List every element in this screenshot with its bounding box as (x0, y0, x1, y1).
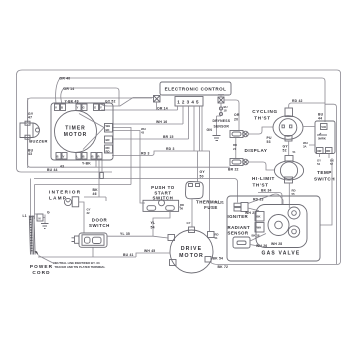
svg-text:WH 28: WH 28 (271, 242, 282, 246)
dryness sensor terminal (218, 97, 224, 103)
wire GY 50 (197, 151, 199, 182)
wire BU 41 bottom (38, 256, 136, 258)
svg-text:47: 47 (28, 116, 32, 120)
door switch body (79, 233, 107, 247)
svg-text:52: 52 (283, 149, 287, 153)
display connector 2 (230, 159, 243, 166)
svg-text:POWER: POWER (30, 264, 53, 269)
display conn1-conn2 link wire (235, 138, 237, 159)
svg-text:46: 46 (93, 192, 97, 196)
svg-text:DRIVE: DRIVE (181, 246, 202, 252)
svg-text:IGNITER: IGNITER (228, 214, 249, 219)
svg-text:OR 14: OR 14 (157, 106, 168, 110)
svg-text:RD 3: RD 3 (141, 152, 150, 156)
lamp tail wire (79, 202, 84, 233)
svg-text:20: 20 (234, 118, 238, 122)
svg-text:L: L (77, 155, 79, 159)
svg-text:G: G (94, 106, 96, 110)
svg-text:G: G (83, 106, 85, 110)
wire door switch drop (92, 247, 94, 257)
svg-text:RADIANT: RADIANT (228, 225, 251, 230)
door switch left plug (75, 236, 80, 243)
svg-text:TEMP: TEMP (317, 170, 332, 175)
svg-text:SWITCH: SWITCH (89, 223, 110, 228)
svg-text:DRYNESS: DRYNESS (213, 119, 231, 123)
svg-text:DOOR: DOOR (92, 218, 108, 223)
radiant sensor wires (250, 234, 266, 247)
timer terminal top-mid (76, 104, 87, 111)
svg-text:18: 18 (224, 109, 228, 113)
wire GY 52 diagonal to control pin (102, 98, 154, 107)
svg-text:CORD: CORD (32, 270, 50, 275)
wire hi-limit to gas valve RD 55 (288, 183, 290, 208)
buzzer inner circle (36, 128, 40, 132)
svg-text:TH'ST: TH'ST (254, 116, 271, 121)
timer terminal bottom-1 (56, 153, 67, 160)
svg-text:BK 72: BK 72 (218, 265, 229, 269)
svg-text:43: 43 (60, 165, 64, 169)
wire WH 16 bus (112, 123, 183, 125)
wire WH 3A (303, 127, 316, 146)
wire right return (325, 104, 337, 264)
svg-text:TRACER AND TIN PLATED TERMINAL: TRACER AND TIN PLATED TERMINAL (55, 265, 106, 269)
svg-text:LAMP: LAMP (49, 196, 67, 201)
svg-text:51: 51 (215, 236, 219, 240)
dryness sensor ground (213, 136, 221, 141)
svg-text:WH 16: WH 16 (156, 120, 167, 124)
outer cabinet border (22, 70, 341, 265)
svg-text:OR 14: OR 14 (64, 87, 75, 91)
svg-text:BU 41: BU 41 (123, 253, 134, 257)
svg-text:V: V (55, 106, 57, 110)
svg-text:Y-BK 49: Y-BK 49 (65, 99, 79, 103)
svg-text:RD: RD (106, 150, 110, 154)
wire BR 15 bus (112, 138, 189, 140)
timer cam wedge (79, 114, 104, 150)
wire OR 40 top bus (56, 78, 325, 122)
motor terminal left-top (168, 235, 175, 241)
svg-text:GY: GY (187, 221, 191, 225)
wire cycling to hi-limit GY 52 (288, 141, 290, 156)
wire RD 42 (289, 103, 325, 108)
svg-text:BR 22: BR 22 (228, 168, 239, 172)
motor terminal bottom-right (205, 257, 211, 263)
svg-text:RD: RD (326, 149, 330, 153)
timer terminal right-1 (105, 124, 113, 133)
motor terminal top (189, 227, 195, 233)
radiant sensor body (233, 237, 250, 248)
svg-text:BR 15: BR 15 (163, 135, 174, 139)
wire L1 power cord leg (30, 179, 32, 220)
svg-text:CYCLING: CYCLING (252, 109, 278, 114)
timer terminal bottom-3 (91, 153, 102, 160)
svg-text:N: N (39, 217, 41, 221)
wire BK 54 to bottom bus (210, 262, 218, 265)
wire OR 20 (224, 100, 239, 131)
svg-text:MOTOR: MOTOR (64, 132, 88, 138)
wire display2 to hi-limit (248, 162, 274, 170)
display connector 1 (230, 131, 243, 138)
buzzer body (20, 123, 39, 138)
svg-text:WH: WH (257, 226, 262, 230)
svg-text:54: 54 (317, 162, 321, 166)
gas valve mount hole bottom (288, 226, 299, 237)
svg-text:B: B (83, 155, 85, 159)
svg-text:43: 43 (141, 131, 145, 135)
thermal fuse blob (186, 182, 204, 199)
temp switch contacts (317, 133, 327, 135)
svg-text:YL 35: YL 35 (120, 232, 130, 236)
temp switch bottom terminals (317, 148, 333, 154)
svg-text:BK 34: BK 34 (261, 189, 272, 193)
svg-text:53: 53 (267, 140, 271, 144)
control board pin terminal (154, 96, 161, 103)
svg-text:V: V (63, 155, 65, 159)
interior lamp bulb (64, 198, 71, 205)
svg-text:B: B (61, 106, 63, 110)
power cord cable (29, 216, 35, 255)
dryness sensor stem (217, 103, 222, 135)
svg-text:YL: YL (151, 221, 156, 225)
outer border left edge (17, 70, 113, 172)
svg-text:RD 3: RD 3 (166, 147, 175, 151)
svg-text:R: R (98, 155, 100, 159)
svg-text:INTERIOR: INTERIOR (49, 190, 81, 195)
wire OR 14 bus (101, 109, 178, 111)
timer terminal top-right (94, 104, 105, 111)
svg-text:G: G (47, 211, 50, 215)
wire push-start right leg (153, 207, 181, 236)
electronic control box (160, 82, 231, 95)
svg-text:3A: 3A (303, 145, 307, 149)
wire OR 14 upper (61, 88, 119, 106)
svg-text:GN: GN (207, 128, 213, 132)
timer terminal right-2 (105, 136, 113, 143)
gas valve center circle (268, 215, 289, 236)
push to start button (159, 200, 165, 206)
svg-text:Y-BK: Y-BK (82, 162, 91, 166)
wire BR 22 (201, 106, 203, 151)
svg-text:BU 44: BU 44 (47, 168, 58, 172)
svg-text:56: 56 (180, 207, 184, 211)
connector pin wires (178, 106, 200, 151)
svg-text:FUSE: FUSE (204, 205, 218, 210)
wire RD 3 bus (112, 151, 210, 232)
control connector 1 2 3 4 5 (175, 97, 203, 107)
svg-text:GY: GY (200, 170, 206, 174)
hi-limit thermostat body (274, 161, 303, 180)
drive motor circle (170, 230, 213, 273)
svg-text:32: 32 (87, 211, 91, 215)
svg-text:BR: BR (106, 138, 110, 142)
timer terminal bottom-2 (76, 153, 87, 160)
svg-text:BUZZER: BUZZER (29, 138, 48, 143)
hi-limit top terminal (285, 156, 293, 162)
gas valve mount hole top (288, 207, 300, 219)
svg-text:RD 42: RD 42 (292, 99, 303, 103)
svg-text:5MRK: 5MRK (318, 137, 326, 141)
ground symbol power (41, 224, 49, 229)
wire display1 to cycling (248, 127, 273, 134)
igniter wires (248, 194, 283, 211)
wire WH 45 (136, 253, 171, 257)
timer motor circle (55, 111, 97, 153)
svg-text:SENSOR: SENSOR (228, 231, 249, 236)
svg-text:Y: Y (77, 106, 79, 110)
svg-text:VIO: VIO (321, 125, 327, 129)
cycling thermostat body (273, 116, 303, 140)
svg-text:B: B (92, 155, 94, 159)
buzzer terminals (25, 121, 30, 125)
wire temp switch down (320, 154, 333, 226)
wire WH 43 branch (112, 128, 145, 204)
svg-text:OR: OR (317, 149, 321, 153)
svg-text:44: 44 (318, 117, 322, 121)
push to start switch box (143, 200, 179, 211)
motor terminal right (208, 232, 215, 238)
N terminal box (37, 214, 43, 221)
svg-text:TH'ST: TH'ST (252, 182, 268, 187)
gas valve coil terminals (255, 212, 264, 222)
push to start terminals (147, 206, 156, 211)
svg-text:50: 50 (200, 175, 204, 179)
igniter plug (241, 203, 248, 212)
svg-text:TIMER: TIMER (65, 126, 86, 132)
buzzer wire (27, 98, 29, 168)
gas valve body (256, 205, 307, 248)
svg-text:DISPLAY: DISPLAY (245, 148, 268, 153)
svg-text:12345: 12345 (177, 99, 201, 104)
svg-text:Y: Y (100, 106, 102, 110)
timer box (51, 103, 113, 160)
svg-text:51: 51 (293, 150, 297, 154)
svg-text:43: 43 (28, 152, 32, 156)
wire G ground leg (43, 215, 45, 224)
wire YL 35 (107, 236, 168, 238)
svg-text:B: B (57, 155, 59, 159)
svg-text:21: 21 (233, 147, 237, 151)
gas valve box (227, 196, 320, 261)
svg-text:OR 40: OR 40 (60, 77, 71, 81)
svg-text:WH 45: WH 45 (144, 249, 155, 253)
svg-text:YL 31: YL 31 (214, 201, 224, 205)
svg-text:HI-LIMIT: HI-LIMIT (252, 176, 275, 181)
temp switch top terminal (321, 124, 328, 130)
svg-text:ELECTRONIC CONTROL: ELECTRONIC CONTROL (165, 86, 227, 91)
wire N power cord leg (35, 185, 38, 220)
svg-text:BK: BK (257, 215, 261, 219)
motor terminal left-bottom (170, 260, 177, 266)
wire timer bottom drops (35, 160, 132, 201)
svg-text:PUSH TO: PUSH TO (151, 185, 175, 190)
timer terminal top-left (55, 104, 66, 111)
svg-text:SENSOR: SENSOR (214, 125, 230, 129)
power cord arrow (34, 251, 38, 256)
svg-text:RD 23: RD 23 (253, 198, 264, 202)
inner cabinet box top (34, 179, 238, 203)
svg-text:GAS VALVE: GAS VALVE (262, 251, 301, 257)
svg-text:54: 54 (151, 226, 155, 230)
console box (28, 98, 231, 167)
svg-text:START: START (154, 190, 171, 195)
svg-text:OR: OR (234, 113, 240, 117)
temp switch box (315, 121, 335, 154)
svg-text:MOTOR: MOTOR (179, 253, 204, 259)
svg-text:55: 55 (292, 192, 296, 196)
svg-text:L1: L1 (23, 214, 27, 218)
timer terminal right-3 (105, 145, 113, 153)
wire thermal fuse to motor (191, 199, 193, 227)
svg-text:BK: BK (106, 128, 110, 132)
svg-text:BK 54: BK 54 (213, 257, 224, 261)
wire BK 34 (258, 193, 282, 205)
